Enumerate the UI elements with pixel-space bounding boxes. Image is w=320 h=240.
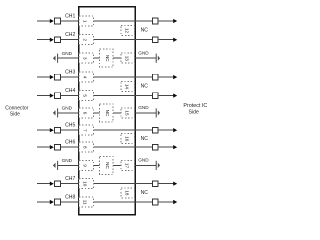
pad CH7 left xyxy=(55,181,61,187)
svg-text:14: 14 xyxy=(124,84,129,90)
svg-text:NC: NC xyxy=(105,162,110,169)
arrow row 10 out xyxy=(173,182,177,186)
pad CH2 left xyxy=(55,37,61,43)
svg-text:4: 4 xyxy=(82,76,87,79)
arrow row 4 out xyxy=(173,75,177,79)
label GND left row 3 xyxy=(62,51,73,56)
wire row 10 CN to right pad xyxy=(135,183,152,185)
wire GND right row 9 xyxy=(135,164,156,166)
svg-text:GND: GND xyxy=(138,158,149,163)
ground left row 9 xyxy=(53,161,58,170)
label Protect IC Side xyxy=(183,103,207,115)
svg-text:CH8: CH8 xyxy=(65,194,75,200)
svg-text:GND: GND xyxy=(62,51,73,56)
wire row 7 to protect IC xyxy=(158,129,174,131)
pad CH4 left xyxy=(55,93,61,99)
wire row 2 to protect IC xyxy=(158,39,174,41)
svg-text:NC: NC xyxy=(141,84,149,90)
pin 18 box xyxy=(121,188,135,198)
wire CH1 pad to CN xyxy=(60,20,78,22)
wire CH1 left lead xyxy=(37,20,50,22)
pin 14 box xyxy=(121,81,135,91)
connector CN refdes box xyxy=(100,104,114,122)
label GND right row 6 xyxy=(138,105,149,110)
svg-text:10: 10 xyxy=(82,181,87,187)
pad CH3 left xyxy=(55,74,61,80)
svg-text:CH6: CH6 xyxy=(65,140,75,146)
pad CH6 left xyxy=(55,144,61,150)
ground right row 3 xyxy=(156,54,160,63)
label GND left row 6 xyxy=(62,106,73,111)
wire row 4 internal xyxy=(94,76,136,78)
pad row 10 right xyxy=(152,181,158,187)
wire GND row 6 internal left xyxy=(94,112,100,114)
pad row 4 right xyxy=(152,74,158,80)
wire GND right row 3 xyxy=(135,57,156,59)
arrow into CH5 pad xyxy=(50,128,54,132)
svg-text:Protect IC: Protect IC xyxy=(183,103,207,109)
svg-text:GND: GND xyxy=(62,106,73,111)
pin 4 box xyxy=(79,72,94,82)
svg-text:Connector: Connector xyxy=(5,106,28,112)
svg-text:5: 5 xyxy=(82,94,87,97)
wire row 11 internal xyxy=(94,201,136,203)
wire GND row 6 internal right xyxy=(113,112,121,114)
arrow row 7 out xyxy=(173,128,177,132)
label GND right row 9 xyxy=(138,158,149,163)
arrow into CH1 pad xyxy=(50,19,54,23)
wire row 7 CN to right pad xyxy=(135,129,152,131)
wire CH8 pad to CN xyxy=(60,201,78,203)
wire CH4 pad to CN xyxy=(60,95,78,97)
pin 17 box xyxy=(121,160,135,170)
arrow row 5 out xyxy=(173,93,177,97)
svg-text:8: 8 xyxy=(82,146,87,149)
pad row 1 right xyxy=(152,18,158,24)
wire row 4 to protect IC xyxy=(158,76,174,78)
arrow into CH7 pad xyxy=(50,182,54,186)
svg-text:3: 3 xyxy=(82,57,87,60)
wire CH6 pad to CN xyxy=(60,146,78,148)
wire GND row 9 internal right xyxy=(113,164,121,166)
svg-text:11: 11 xyxy=(82,200,87,205)
svg-text:17: 17 xyxy=(124,163,129,169)
label CH8 xyxy=(65,194,75,200)
ground right row 9 xyxy=(156,161,160,170)
pad row 8 right xyxy=(152,144,158,150)
wire row 7 internal xyxy=(94,129,136,131)
wire CH2 left lead xyxy=(37,39,50,41)
wire row 4 CN to right pad xyxy=(135,76,152,78)
arrow into CH3 pad xyxy=(50,75,54,79)
arrow row 8 out xyxy=(173,145,177,149)
wire GND left row 3 xyxy=(58,57,79,59)
wire CH4 left lead xyxy=(37,95,50,97)
connector CN refdes box xyxy=(100,49,114,67)
label GND left row 9 xyxy=(62,158,73,163)
pin 8 box xyxy=(79,142,94,152)
svg-text:GND: GND xyxy=(138,51,149,56)
pin 9 box xyxy=(79,160,94,170)
svg-text:13: 13 xyxy=(124,56,129,62)
pin 2 box xyxy=(79,35,94,45)
label NC row 2 xyxy=(141,28,149,34)
wire row 8 CN to right pad xyxy=(135,146,152,148)
svg-text:12: 12 xyxy=(124,28,129,34)
arrow into CH8 pad xyxy=(50,200,54,204)
svg-text:9: 9 xyxy=(82,164,87,167)
connector CN body xyxy=(79,7,136,215)
pad row 11 right xyxy=(152,199,158,205)
wire row 10 internal xyxy=(94,183,136,185)
label NC row 8 xyxy=(141,136,149,142)
wire CH7 pad to CN xyxy=(60,183,78,185)
svg-text:16: 16 xyxy=(124,136,129,142)
wire GND left row 6 xyxy=(58,112,79,114)
svg-text:NC: NC xyxy=(141,136,149,142)
connector CN refdes box xyxy=(100,156,114,174)
label Connector Side xyxy=(5,106,28,118)
label CH7 xyxy=(65,176,75,182)
label CH5 xyxy=(65,123,75,129)
svg-text:NC: NC xyxy=(141,28,149,34)
pin 13 box xyxy=(121,53,135,63)
wire CH5 left lead xyxy=(37,129,50,131)
wire row 5 CN to right pad xyxy=(135,95,152,97)
ground left row 3 xyxy=(53,54,58,63)
wire row 8 to protect IC xyxy=(158,146,174,148)
svg-text:CH7: CH7 xyxy=(65,176,75,182)
wire GND left row 9 xyxy=(58,164,79,166)
label CH4 xyxy=(65,88,75,94)
svg-text:1: 1 xyxy=(82,20,87,23)
pin 10 box xyxy=(79,179,94,189)
svg-text:CH1: CH1 xyxy=(65,13,75,19)
arrow row 2 out xyxy=(173,38,177,42)
arrow row 11 out xyxy=(173,200,177,204)
wire row 1 to protect IC xyxy=(158,20,174,22)
svg-text:NC: NC xyxy=(105,110,110,117)
wire row 2 internal xyxy=(94,39,136,41)
label CH2 xyxy=(65,32,75,38)
pin 6 box xyxy=(79,108,94,118)
wire row 8 internal xyxy=(94,146,136,148)
svg-text:Side: Side xyxy=(189,110,199,116)
svg-text:CH2: CH2 xyxy=(65,32,75,38)
pin 16 box xyxy=(121,134,135,144)
svg-text:NC: NC xyxy=(105,55,110,62)
wire row 1 CN to right pad xyxy=(135,20,152,22)
pin 7 box xyxy=(79,125,94,135)
wire row 5 to protect IC xyxy=(158,95,174,97)
pin 12 box xyxy=(121,25,135,35)
pin 5 box xyxy=(79,91,94,101)
wire CH3 left lead xyxy=(37,76,50,78)
svg-text:2: 2 xyxy=(82,39,87,42)
pad row 5 right xyxy=(152,93,158,99)
svg-text:NC: NC xyxy=(141,190,149,196)
svg-text:CH4: CH4 xyxy=(65,88,75,94)
label NC row 11 xyxy=(141,190,149,196)
wire GND row 3 internal left xyxy=(94,57,100,59)
svg-text:15: 15 xyxy=(124,110,129,116)
wire row 1 internal xyxy=(94,20,136,22)
wire CH8 left lead xyxy=(37,201,50,203)
svg-text:6: 6 xyxy=(82,112,87,115)
svg-text:CH5: CH5 xyxy=(65,123,75,129)
svg-text:GND: GND xyxy=(138,105,149,110)
wire CH6 left lead xyxy=(37,146,50,148)
ground right row 6 xyxy=(156,108,160,117)
wire CH2 pad to CN xyxy=(60,39,78,41)
svg-text:GND: GND xyxy=(62,158,73,163)
pin 3 box xyxy=(79,53,94,63)
wire CH5 pad to CN xyxy=(60,129,78,131)
wire GND right row 6 xyxy=(135,112,156,114)
wire row 11 CN to right pad xyxy=(135,201,152,203)
label CH6 xyxy=(65,140,75,146)
arrow into CH4 pad xyxy=(50,93,54,97)
svg-text:CH3: CH3 xyxy=(65,70,75,76)
wire GND row 9 internal left xyxy=(94,164,100,166)
wire CH7 left lead xyxy=(37,183,50,185)
svg-text:Side: Side xyxy=(10,112,20,118)
pad CH8 left xyxy=(55,199,61,205)
arrow into CH6 pad xyxy=(50,145,54,149)
arrow into CH2 pad xyxy=(50,38,54,42)
wire CH3 pad to CN xyxy=(60,76,78,78)
label NC row 5 xyxy=(141,84,149,90)
ground left row 6 xyxy=(53,108,58,117)
svg-text:18: 18 xyxy=(124,190,129,196)
arrow row 1 out xyxy=(173,19,177,23)
wire row 5 internal xyxy=(94,95,136,97)
pin 11 box xyxy=(79,197,94,207)
label GND right row 3 xyxy=(138,51,149,56)
wire row 10 to protect IC xyxy=(158,183,174,185)
pad CH1 left xyxy=(55,18,61,24)
pad CH5 left xyxy=(55,127,61,133)
pin 1 box xyxy=(79,16,94,26)
svg-text:7: 7 xyxy=(82,129,87,132)
wire row 11 to protect IC xyxy=(158,201,174,203)
pin 15 box xyxy=(121,108,135,118)
wire row 2 CN to right pad xyxy=(135,39,152,41)
wire GND row 3 internal right xyxy=(113,57,121,59)
label CH1 xyxy=(65,13,75,19)
pad row 7 right xyxy=(152,127,158,133)
pad row 2 right xyxy=(152,37,158,43)
label CH3 xyxy=(65,70,75,76)
